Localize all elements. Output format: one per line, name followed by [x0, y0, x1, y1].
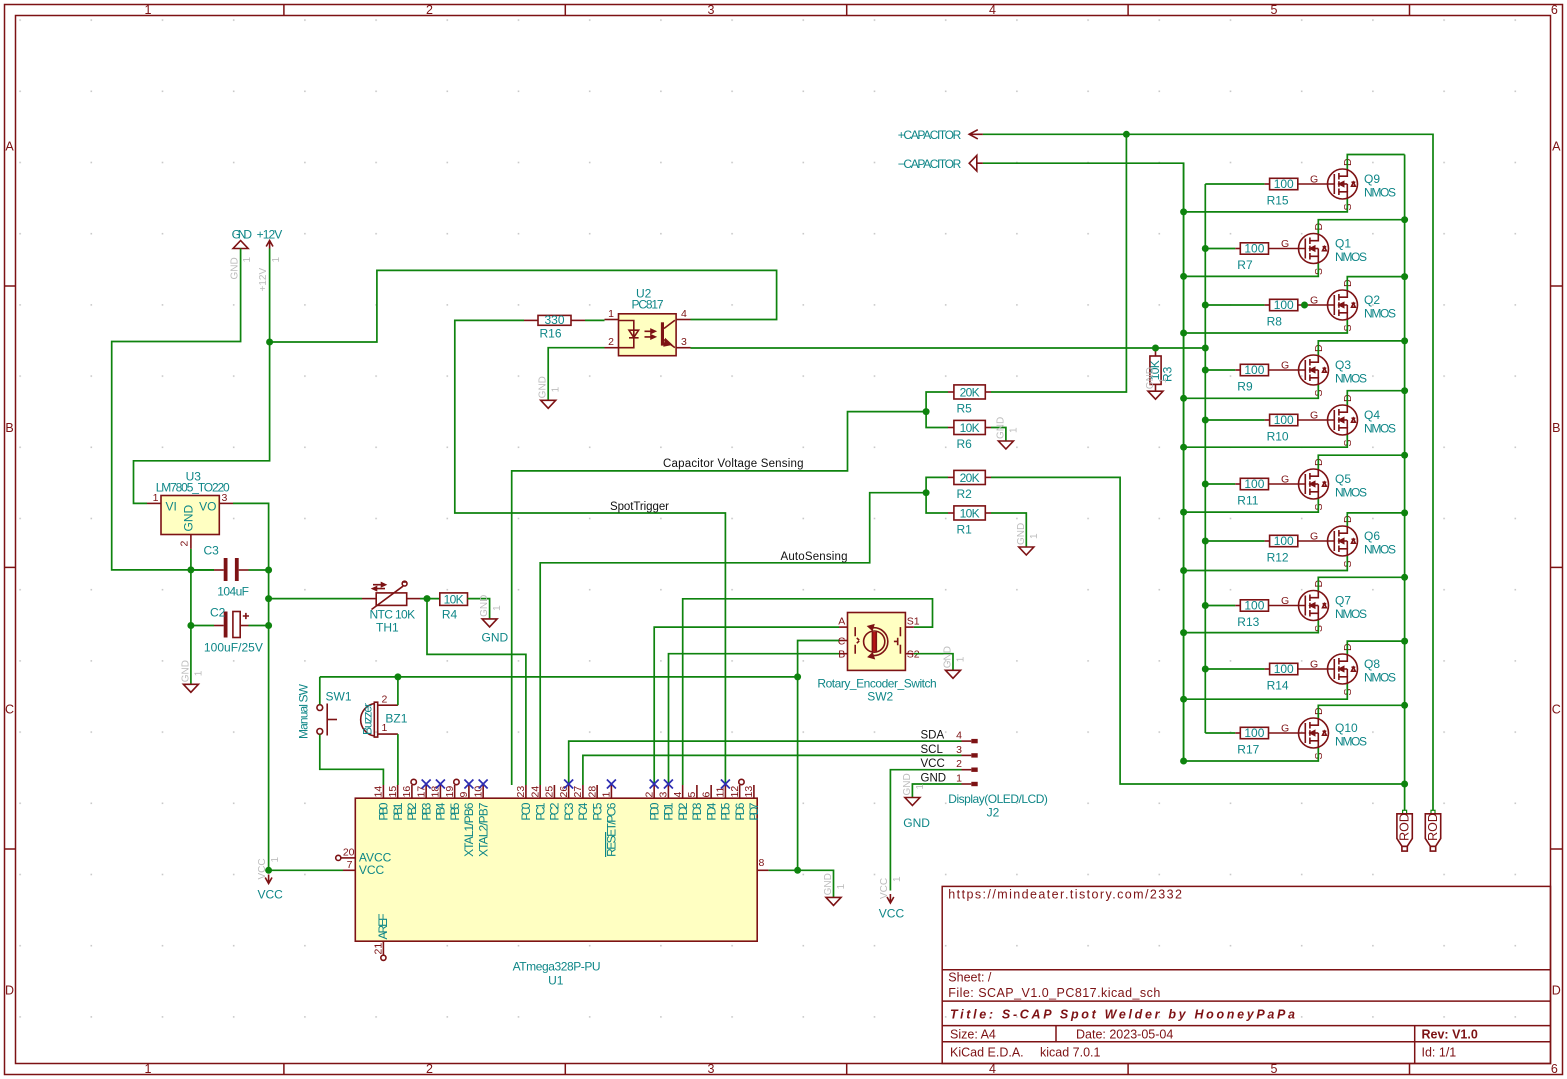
title block outline: [942, 886, 1550, 1063]
junction gate bus row Q8: [1202, 666, 1209, 673]
frame column ticks: [283, 5, 285, 16]
svg-text:GND: GND: [479, 595, 490, 617]
svg-text:2: 2: [956, 758, 962, 770]
wire SW2 B to U1 PD3: [669, 654, 840, 785]
svg-text:GND: GND: [1145, 367, 1156, 389]
U2 pin 2: [605, 347, 619, 349]
wire gate bus to R13: [1205, 605, 1235, 607]
svg-text:S2: S2: [907, 649, 920, 661]
power symbol VCC at J2: [887, 894, 894, 903]
svg-text:Q4: Q4: [1364, 408, 1380, 422]
wire C3 left: [191, 569, 214, 571]
svg-text:ROD: ROD: [1398, 813, 1412, 841]
wire gate bus to R17: [1205, 732, 1235, 734]
svg-text:100: 100: [1274, 413, 1294, 427]
wire ground rail down-left: [190, 570, 192, 684]
svg-text:PD6: PD6: [733, 802, 747, 820]
transistor Q1 NMOS: [1269, 248, 1306, 250]
svg-text:VO: VO: [199, 500, 216, 514]
wire Q5 drain to +CAPACITOR bus: [1318, 455, 1404, 469]
svg-text:S1: S1: [907, 616, 920, 628]
svg-text:15: 15: [387, 786, 399, 798]
junction gate bus row Q6: [1202, 538, 1209, 545]
junction source bus Q5: [1180, 509, 1187, 516]
junction VCC rail / U1 VCC: [265, 867, 272, 874]
svg-text:G: G: [1281, 238, 1289, 250]
svg-text:1: 1: [382, 722, 388, 734]
wire Q1 drain to +CAPACITOR bus: [1318, 220, 1404, 234]
wire Q6 source to -CAPACITOR bus: [1184, 556, 1348, 571]
svg-text:GND: GND: [538, 376, 549, 398]
svg-text:R10: R10: [1267, 430, 1289, 444]
svg-text:1: 1: [892, 876, 903, 882]
svg-text:GND: GND: [230, 257, 241, 279]
junction drain bus Q5: [1401, 452, 1408, 459]
svg-text:3: 3: [658, 792, 670, 798]
wire gate bus to R11: [1205, 483, 1235, 485]
BZ1 pin 1: [378, 733, 398, 735]
junction TH1 / R4 / PC1 branch: [424, 595, 431, 602]
svg-text:AVCC: AVCC: [359, 850, 392, 864]
resistor R15 100: [1270, 178, 1298, 189]
power symbol GND (J2): [905, 798, 920, 806]
wire C2 left: [191, 625, 214, 627]
svg-text:100: 100: [1274, 177, 1294, 191]
svg-text:23: 23: [515, 786, 527, 798]
svg-text:U1: U1: [548, 974, 564, 988]
U1 pin 23 PC0: [525, 785, 527, 798]
wire R1 right to ground: [991, 513, 1026, 547]
svg-text:104uF: 104uF: [217, 585, 249, 599]
wire C2 right to VCC rail: [249, 625, 269, 627]
svg-text:Display(OLED/LCD): Display(OLED/LCD): [948, 792, 1048, 806]
wire U2 pin2 to ground: [548, 348, 604, 401]
svg-text:−CAPACITOR: −CAPACITOR: [898, 157, 962, 171]
svg-text:R2: R2: [957, 487, 973, 501]
svg-text:R11: R11: [1237, 494, 1258, 508]
svg-text:100: 100: [1244, 242, 1264, 256]
svg-text:1: 1: [145, 1062, 152, 1076]
svg-text:R4: R4: [442, 608, 458, 622]
wire Q6 drain to +CAPACITOR bus: [1347, 513, 1404, 526]
wire R4 node to U1 PC1: [427, 599, 526, 785]
power symbol GND (U1): [826, 897, 841, 905]
MCU U1 ATmega328P-PU body: [355, 798, 757, 941]
svg-text:G: G: [1310, 174, 1318, 186]
svg-text:R15: R15: [1267, 194, 1289, 208]
svg-text:1: 1: [956, 656, 967, 662]
wire gate bus to R12: [1205, 540, 1264, 542]
buzzer BZ1: [374, 702, 377, 737]
junction R5/R6 node: [923, 408, 930, 415]
U1 pin 28 PC5: [596, 785, 598, 798]
resistor R5 20K: [954, 385, 985, 399]
junction C3 right / VCC rail: [265, 567, 272, 574]
junction C2 right / VCC rail: [265, 622, 272, 629]
svg-text:R8: R8: [1267, 315, 1283, 329]
svg-text:https://mindeater.tistory.com/: https://mindeater.tistory.com/2332: [948, 888, 1182, 902]
transistor Q3 NMOS: [1269, 369, 1306, 371]
junction U3 GND / C3: [187, 566, 194, 573]
U1 pin 1 RESET/PC6: [610, 785, 612, 798]
junction gate bus row Q4: [1202, 417, 1209, 424]
U1 pin 13 PD7: [753, 785, 755, 798]
resistor R11 100: [1240, 478, 1268, 489]
svg-text:1: 1: [242, 257, 253, 263]
svg-text:A: A: [1552, 140, 1561, 154]
wire Q4 source to -CAPACITOR bus: [1184, 435, 1348, 447]
wire U3 GND pin to ground rail: [190, 549, 192, 570]
wire Q3 drain to +CAPACITOR bus: [1318, 341, 1404, 355]
svg-text:18: 18: [430, 786, 442, 798]
svg-text:VCC: VCC: [258, 888, 284, 902]
wire SW1 bottom to U1 PB0: [320, 735, 384, 786]
svg-text:R9: R9: [1237, 380, 1253, 394]
svg-text:NMOS: NMOS: [1335, 735, 1367, 749]
junction R2/R1 node: [923, 489, 930, 496]
resistor R2 20K: [954, 470, 985, 484]
svg-text:SpotTrigger: SpotTrigger: [610, 501, 669, 513]
rotary encoder SW2: [848, 613, 906, 671]
junction source bus Q8: [1180, 696, 1187, 703]
svg-text:PD4: PD4: [704, 802, 718, 820]
svg-text:SCL: SCL: [921, 744, 944, 756]
svg-text:100: 100: [1244, 363, 1264, 377]
U2 pin 3: [676, 347, 690, 349]
resistor R3 10K vertical: [1150, 356, 1161, 384]
svg-text:NMOS: NMOS: [1364, 186, 1396, 200]
junction gate node Q2: [1301, 302, 1308, 309]
wire +12V to U3 VI: [134, 342, 270, 503]
svg-text:10: 10: [472, 786, 484, 798]
source bus vertical (-CAPACITOR): [1183, 163, 1185, 761]
SW2 pin C: [839, 640, 848, 642]
svg-text:GND: GND: [921, 773, 947, 785]
power symbol GND (SW2): [946, 670, 961, 678]
svg-text:Title: S-CAP Spot Welder by Ho: Title: S-CAP Spot Welder by HooneyPaPa: [950, 1008, 1295, 1022]
svg-text:+12V: +12V: [258, 268, 269, 292]
SW2 pin S2: [905, 653, 914, 655]
svg-text:B: B: [838, 649, 845, 661]
svg-text:1: 1: [915, 784, 926, 790]
power symbol VCC left: [265, 875, 272, 884]
svg-text:R1: R1: [957, 523, 973, 537]
svg-text:PC2: PC2: [548, 802, 562, 820]
resistor R1 10K: [954, 506, 985, 520]
U1 pin 4 PD2: [682, 785, 684, 798]
svg-text:GND: GND: [182, 505, 196, 532]
switch SW1 Manual SW: [317, 705, 323, 711]
U3 pin 2 GND stub: [190, 535, 192, 549]
svg-text:R7: R7: [1237, 258, 1253, 272]
transistor Q9 NMOS: [1298, 183, 1335, 185]
U2 internal LED: [619, 321, 634, 331]
svg-text:1: 1: [1029, 533, 1040, 539]
U2 internal transistor: [661, 322, 664, 345]
wire BZ1 pin2 up to gnd bus: [397, 677, 399, 705]
svg-text:R5: R5: [957, 402, 973, 416]
svg-text:Date: 2023-05-04: Date: 2023-05-04: [1076, 1027, 1173, 1041]
power symbol GND (R3): [1148, 391, 1163, 399]
junction drain bus Q3: [1401, 337, 1408, 344]
wire +CAPACITOR to right rail: [983, 134, 1433, 810]
svg-text:A: A: [838, 616, 845, 628]
junction drain bus Q7: [1401, 574, 1408, 581]
svg-text:PB5: PB5: [448, 802, 462, 820]
wire R5/R6 mid node: [926, 392, 948, 428]
svg-text:2: 2: [608, 336, 614, 348]
svg-text:NMOS: NMOS: [1364, 307, 1396, 321]
svg-text:2: 2: [382, 694, 388, 706]
svg-text:Rev: V1.0: Rev: V1.0: [1422, 1027, 1478, 1041]
wire Q5 source to -CAPACITOR bus: [1184, 499, 1319, 512]
U1 pin 26 PC3: [568, 785, 570, 798]
wire VCC rail from U3 VO: [233, 503, 269, 870]
svg-text:NMOS: NMOS: [1364, 543, 1396, 557]
svg-text:100uF/25V: 100uF/25V: [204, 641, 263, 655]
svg-text:3: 3: [222, 492, 228, 504]
svg-text:NMOS: NMOS: [1364, 422, 1396, 436]
wire gnd bus SW1/BZ1/C: [320, 676, 798, 678]
wire gate bus to R10: [1205, 419, 1264, 421]
svg-text:12: 12: [729, 786, 741, 798]
svg-text:GND: GND: [482, 631, 509, 645]
svg-text:G: G: [1310, 531, 1318, 543]
svg-text:Q9: Q9: [1364, 172, 1380, 186]
wire SW2 A to U1 PD2: [654, 627, 839, 785]
svg-text:1: 1: [153, 492, 159, 504]
resistor R17 100: [1240, 727, 1268, 738]
svg-text:100: 100: [1244, 599, 1264, 613]
wire Q8 source to -CAPACITOR bus: [1184, 684, 1348, 699]
svg-text:VCC: VCC: [879, 907, 905, 921]
wire gate bus to R7: [1205, 248, 1235, 250]
svg-text:24: 24: [529, 786, 541, 798]
frame row ticks: [5, 285, 16, 287]
svg-text:26: 26: [558, 786, 570, 798]
wire Q4 drain to +CAPACITOR bus: [1347, 391, 1404, 405]
svg-text:Q10: Q10: [1335, 721, 1358, 735]
svg-text:SW2: SW2: [867, 690, 893, 704]
junction R3 top: [1152, 345, 1159, 352]
svg-text:2: 2: [179, 541, 191, 547]
wire Q8 drain to +CAPACITOR bus: [1347, 641, 1404, 654]
svg-text:6: 6: [1551, 3, 1558, 17]
wire sensing node to U1 PC0: [512, 412, 926, 785]
capacitor C2 100uF/25V polarized: [224, 612, 228, 638]
transistor Q4 NMOS: [1298, 419, 1335, 421]
svg-text:1: 1: [608, 308, 614, 320]
svg-text:Q2: Q2: [1364, 293, 1380, 307]
transistor Q5 NMOS: [1269, 483, 1306, 485]
svg-text:17: 17: [415, 786, 427, 798]
U1 pin 9 XTAL1/PB6: [468, 785, 470, 798]
U1 pin 24 PC1: [539, 785, 541, 798]
wire U2 pin3 to gate bus: [691, 347, 1206, 349]
wire SDA to U1 PC4: [569, 741, 962, 785]
svg-text:Capacitor Voltage Sensing: Capacitor Voltage Sensing: [663, 458, 804, 470]
svg-text:2: 2: [426, 3, 433, 17]
svg-text:GND: GND: [1016, 523, 1027, 545]
wire R4 right to ground: [468, 599, 490, 619]
svg-text:Q5: Q5: [1335, 472, 1351, 486]
svg-text:20: 20: [343, 846, 355, 858]
svg-text:J2: J2: [987, 806, 1000, 820]
svg-text:G: G: [1310, 410, 1318, 422]
svg-text:AREF: AREF: [376, 914, 390, 940]
svg-text:10K: 10K: [444, 592, 464, 606]
power symbol GND (R4): [482, 619, 497, 627]
svg-text:NTC 10K: NTC 10K: [370, 608, 416, 622]
junction drain bus Q2: [1401, 273, 1408, 280]
svg-text:D: D: [5, 984, 14, 998]
wire Q9 source to -CAPACITOR bus: [1184, 199, 1348, 212]
svg-text:19: 19: [444, 786, 456, 798]
svg-text:1: 1: [601, 792, 613, 798]
wire Q7 drain to +CAPACITOR bus: [1318, 577, 1404, 590]
transistor Q2 NMOS: [1298, 304, 1335, 306]
gate bus vertical: [1204, 184, 1206, 733]
junction +CAPACITOR / R5 riser: [1123, 131, 1130, 138]
junction VCC rail / TH1: [265, 595, 272, 602]
svg-text:GND: GND: [180, 660, 191, 682]
svg-text:4: 4: [989, 3, 996, 17]
wire TH1 to R4: [420, 598, 440, 600]
svg-text:LM7805_TO220: LM7805_TO220: [156, 481, 230, 495]
wire Q7 source to -CAPACITOR bus: [1184, 621, 1319, 633]
junction gate bus row Q5: [1202, 481, 1209, 488]
junction +12V node: [266, 339, 273, 346]
SW2 pin A: [839, 626, 848, 628]
U3 pin 3 VO: [219, 502, 233, 504]
wire VCC rail to TH1: [269, 598, 362, 600]
svg-text:RESET/PC6: RESET/PC6: [605, 802, 619, 857]
junction drain bus Q1: [1401, 216, 1408, 223]
junction source bus Q4: [1180, 444, 1187, 451]
U1 pin 15 PB1: [397, 785, 399, 798]
svg-text:C: C: [5, 703, 14, 717]
resistor R9 100: [1240, 364, 1268, 375]
wire gate bus to R8: [1205, 304, 1264, 306]
svg-text:R14: R14: [1267, 679, 1289, 693]
U1 pin 5 PD3: [696, 785, 698, 798]
svg-text:1: 1: [1008, 427, 1019, 433]
junction drain bus Q6: [1401, 509, 1408, 516]
junction source bus Q9: [1180, 208, 1187, 215]
svg-text:G: G: [1281, 474, 1289, 486]
BZ1 pin 2: [378, 704, 398, 706]
junction gate bus row Q7: [1202, 602, 1209, 609]
svg-text:B: B: [1552, 421, 1560, 435]
U2 internal light arrows: [645, 329, 656, 333]
svg-text:D: D: [1552, 984, 1561, 998]
junction gate bus feed: [1202, 345, 1209, 352]
junction drain bus Q10: [1401, 702, 1408, 709]
wire J2 GND to ground: [912, 784, 961, 798]
junction source bus Q10: [1180, 758, 1187, 765]
svg-text:1: 1: [492, 605, 503, 611]
U1 pin 12 PD6: [739, 785, 741, 798]
wire SW2 S1 to U1 PD4: [683, 599, 933, 785]
U1 pin 25 PC2: [553, 785, 555, 798]
power symbol GND (R6): [998, 441, 1013, 449]
U1 pin 10 XTAL2/PB7: [482, 785, 484, 798]
wire Q2 source to -CAPACITOR bus: [1184, 320, 1348, 333]
svg-text:NMOS: NMOS: [1364, 671, 1396, 685]
wire VCC to U1 pin 7: [269, 869, 343, 871]
U1 pin 2 PD0: [653, 785, 655, 798]
svg-text:9: 9: [458, 792, 470, 798]
svg-text:100: 100: [1274, 662, 1294, 676]
wire R6 right to ground: [991, 428, 1006, 442]
U1 pin 11 PD5: [724, 785, 726, 798]
junction source bus Q1: [1180, 273, 1187, 280]
svg-text:A: A: [5, 140, 14, 154]
svg-text:GND: GND: [232, 228, 253, 242]
U1 pin 6 PD4: [710, 785, 712, 798]
resistor R10 100: [1270, 414, 1298, 425]
transistor Q7 NMOS: [1269, 605, 1306, 607]
svg-text:PB1: PB1: [391, 802, 405, 820]
svg-text:2: 2: [426, 1062, 433, 1076]
wire GND flag to left rail: [112, 249, 241, 570]
svg-text:Sheet: /: Sheet: /: [948, 971, 992, 985]
svg-text:6: 6: [1551, 1062, 1558, 1076]
svg-text:27: 27: [572, 786, 584, 798]
svg-text:R16: R16: [540, 327, 562, 341]
svg-text:1: 1: [193, 670, 204, 676]
svg-text:GND: GND: [943, 646, 954, 668]
svg-text:PB4: PB4: [434, 802, 448, 820]
svg-text:28: 28: [586, 786, 598, 798]
resistor R14 100: [1270, 663, 1298, 674]
svg-text:G: G: [1310, 659, 1318, 671]
terminal ROD1 ROD: [1403, 810, 1407, 814]
U1 pin 17 PB3: [425, 785, 427, 798]
svg-text:Q6: Q6: [1364, 529, 1380, 543]
svg-text:B: B: [5, 421, 13, 435]
wire -CAPACITOR to source bus: [983, 163, 1184, 761]
U1 pin 21 AREF: [382, 941, 384, 955]
wire Q2 drain to +CAPACITOR bus: [1347, 277, 1404, 290]
U1 pin 18 PB4: [439, 785, 441, 798]
resistor R8 100: [1270, 299, 1298, 310]
wire SW2 S2 to ground: [914, 654, 953, 671]
svg-text:Id: 1/1: Id: 1/1: [1422, 1045, 1457, 1059]
svg-text:ATmega328P-PU: ATmega328P-PU: [513, 960, 601, 974]
svg-text:PD0: PD0: [647, 802, 661, 820]
svg-text:AutoSensing: AutoSensing: [781, 551, 848, 563]
svg-text:2: 2: [643, 792, 655, 798]
svg-text:4: 4: [956, 730, 962, 742]
wire J2 VCC to power: [890, 770, 961, 891]
svg-text:13: 13: [743, 786, 755, 798]
svg-text:6: 6: [700, 792, 712, 798]
svg-text:PB3: PB3: [419, 802, 433, 820]
svg-text:C3: C3: [204, 544, 220, 558]
svg-text:GND: GND: [995, 417, 1006, 439]
svg-text:C2: C2: [210, 606, 226, 620]
transistor Q6 NMOS: [1298, 540, 1335, 542]
junction source bus Q6: [1180, 567, 1187, 574]
junction gate bus row Q1: [1202, 245, 1209, 252]
svg-text:XTAL2/PB7: XTAL2/PB7: [476, 802, 490, 857]
junction C / gnd bus: [794, 673, 801, 680]
svg-text:1: 1: [271, 257, 282, 263]
svg-text:R6: R6: [957, 437, 973, 451]
svg-text:VI: VI: [166, 500, 177, 514]
svg-text:1: 1: [956, 773, 962, 785]
